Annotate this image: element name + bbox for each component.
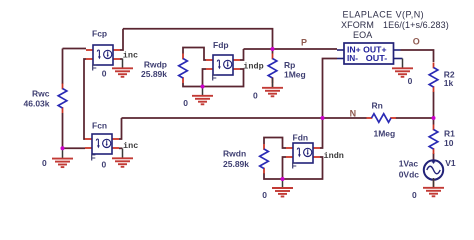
svg-text:46.03k: 46.03k xyxy=(24,98,50,108)
resistor Rn xyxy=(367,114,397,123)
resistor Rwc xyxy=(58,84,67,114)
svg-text:1Vac: 1Vac xyxy=(399,159,419,169)
wire Fdp upper-right riser to P line xyxy=(240,49,244,60)
wire Rwdp bottom rail xyxy=(183,69,244,87)
wire N line left segment xyxy=(122,117,367,119)
F source Fdp xyxy=(206,55,240,75)
wire top line to P junction xyxy=(123,29,273,54)
junction left rail / Fcn xyxy=(61,146,65,150)
junction N at R1/R2 xyxy=(432,116,436,120)
wire N junction to R1 top xyxy=(433,118,435,125)
svg-text:Rwc: Rwc xyxy=(32,88,50,98)
svg-text:indn: indn xyxy=(324,151,344,161)
F source Fcn xyxy=(85,134,119,154)
svg-text:Rwdn: Rwdn xyxy=(223,149,246,159)
wire left rail top (Rwc top) xyxy=(62,49,64,85)
junction Fdn ground xyxy=(281,177,285,181)
svg-text:Rn: Rn xyxy=(372,101,383,111)
svg-text:0: 0 xyxy=(412,190,417,200)
wire red lead V1 to ground xyxy=(433,180,435,188)
svg-text:1Meg: 1Meg xyxy=(374,129,396,139)
ground at Fdp cell xyxy=(192,86,213,104)
svg-text:R1: R1 xyxy=(444,128,455,138)
svg-text:F: F xyxy=(212,72,217,82)
svg-text:1Meg: 1Meg xyxy=(284,70,306,80)
junction P xyxy=(271,47,275,51)
wire red lead Rp to ground xyxy=(272,78,274,88)
svg-text:F: F xyxy=(91,152,96,162)
svg-text:0: 0 xyxy=(102,160,107,170)
svg-text:Fcn: Fcn xyxy=(92,121,107,131)
svg-text:indp: indp xyxy=(243,62,263,72)
svg-text:O: O xyxy=(413,36,420,46)
wire Rwdn top to Fdn upper-left xyxy=(264,138,286,149)
svg-text:1k: 1k xyxy=(444,78,454,88)
svg-text:25.89k: 25.89k xyxy=(223,159,249,169)
wire R2 bottom to N junction xyxy=(433,92,435,119)
ground at V1 xyxy=(423,178,444,196)
ground at Fcp output xyxy=(112,59,133,77)
resistor Rp xyxy=(268,54,277,84)
svg-text:0Vdc: 0Vdc xyxy=(399,170,420,180)
wire Fcp upper-right to top line xyxy=(120,29,123,50)
ground at Fdn cell xyxy=(272,178,293,196)
svg-text:OUT-: OUT- xyxy=(366,54,388,63)
svg-text:IN-: IN- xyxy=(347,54,358,63)
wire Fcp input from left rail xyxy=(63,48,87,50)
voltage source V1 xyxy=(424,160,443,180)
svg-text:0: 0 xyxy=(253,91,258,101)
wire R1 bottom to V1 xyxy=(433,153,435,160)
resistor Rwdp xyxy=(179,54,188,84)
svg-text:10: 10 xyxy=(444,138,454,148)
ground at Rp bottom xyxy=(262,78,283,96)
svg-text:inc: inc xyxy=(123,141,138,151)
wire Fcp lower-right to ground xyxy=(120,58,123,60)
wire N line right segment xyxy=(396,117,434,119)
wire left rail bottom (Rwc bottom to junction) xyxy=(62,113,64,148)
ground at left rail bottom xyxy=(52,149,73,167)
svg-text:0: 0 xyxy=(262,190,267,200)
wire EOA OUT+ to R2 xyxy=(401,50,434,62)
wire EOA IN- down to N line xyxy=(323,59,338,119)
svg-text:25.89k: 25.89k xyxy=(141,69,167,79)
svg-text:Fdp: Fdp xyxy=(213,40,229,50)
wire P line to EOA IN+ xyxy=(244,48,338,50)
svg-text:F: F xyxy=(292,160,297,170)
wire junction to Fcn lower-left pin xyxy=(63,147,86,149)
F source Fdn xyxy=(286,143,320,163)
wire Fcn upper-right to N line xyxy=(119,118,122,139)
junction N at IN- riser xyxy=(321,116,325,120)
svg-text:IN+ OUT+: IN+ OUT+ xyxy=(347,45,387,54)
svg-text:Rwdp: Rwdp xyxy=(144,59,167,69)
svg-text:Fdn: Fdn xyxy=(293,132,309,142)
wire Fdn upper-right to N junction xyxy=(320,118,323,148)
svg-text:0: 0 xyxy=(183,98,188,108)
wire Fdp lower-left to ground junction xyxy=(203,69,207,87)
ground at EOA OUT- xyxy=(392,59,413,77)
svg-text:inc: inc xyxy=(123,50,138,60)
svg-text:0: 0 xyxy=(42,158,47,168)
svg-text:0: 0 xyxy=(408,76,413,86)
svg-text:EOA: EOA xyxy=(353,30,372,40)
ground at Fcn output xyxy=(112,149,133,167)
svg-text:V1: V1 xyxy=(445,158,456,168)
wire Fcn lower-right to ground xyxy=(119,147,123,149)
wire Fcp lower-left to Fcn upper-left xyxy=(84,59,86,139)
svg-text:XFORM: XFORM xyxy=(341,20,374,30)
svg-text:P: P xyxy=(301,37,307,47)
svg-text:F: F xyxy=(92,62,97,72)
svg-text:1E6/(1+s/6.283): 1E6/(1+s/6.283) xyxy=(383,20,449,30)
wire Rwdn bottom rail xyxy=(264,157,323,179)
svg-text:N: N xyxy=(350,108,357,118)
wire Fdn lower-left to ground junction xyxy=(283,157,287,179)
svg-text:Fcp: Fcp xyxy=(92,28,107,38)
wire Rwdp top to Fdp upper-left xyxy=(183,48,206,61)
op-amp block EOA (ELAPLACE) xyxy=(337,43,403,64)
svg-text:Rp: Rp xyxy=(284,60,295,70)
F source Fcp xyxy=(86,45,120,65)
svg-text:ELAPLACE V(P,N): ELAPLACE V(P,N) xyxy=(343,10,425,20)
resistor Rwdn xyxy=(260,144,269,174)
svg-text:0: 0 xyxy=(102,69,107,79)
junction Fdp ground xyxy=(201,85,205,89)
resistor R1 xyxy=(429,125,438,155)
resistor R2 xyxy=(429,63,438,93)
